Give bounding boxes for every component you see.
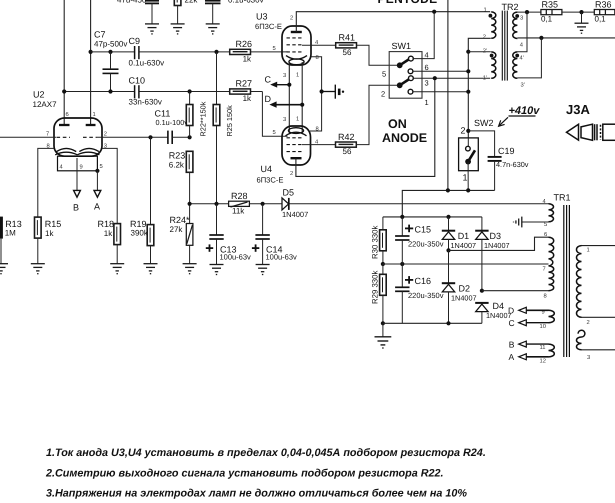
ground R18: [110, 264, 124, 274]
svg-text:9: 9: [80, 164, 83, 171]
resistor R25 (vertical): [216, 52, 218, 105]
svg-text:B: B: [73, 202, 79, 212]
svg-text:U2: U2: [33, 90, 45, 100]
wire U4 screen to R42: [302, 144, 336, 146]
svg-text:J3A: J3A: [566, 102, 590, 117]
svg-text:220u-350v: 220u-350v: [408, 240, 444, 249]
node D: [300, 103, 304, 107]
tube U2 12AX7: [54, 118, 102, 156]
node D1 top: [446, 215, 450, 219]
svg-text:1: 1: [463, 173, 468, 183]
svg-text:1N4007: 1N4007: [451, 241, 477, 250]
resistor R24* (adjustable): [189, 204, 191, 224]
U4 anode bar: [291, 157, 302, 159]
svg-text:TR1: TR1: [554, 193, 571, 203]
capacitor C7: [103, 69, 119, 73]
capacitor C10: [135, 85, 139, 98]
svg-text:27k: 27k: [170, 225, 184, 234]
svg-text:1N4007: 1N4007: [451, 293, 477, 302]
wire throw6 to TR2: [413, 70, 468, 72]
capacitor C14: [262, 204, 264, 235]
svg-text:2: 2: [290, 15, 293, 22]
svg-text:2.Симетрию выходного сигнала у: 2.Симетрию выходного сигнала установить …: [45, 467, 444, 479]
svg-text:R15: R15: [45, 219, 62, 229]
node C7 top: [108, 50, 112, 54]
ground R24: [183, 264, 197, 274]
wire CT rail (y=264): [383, 263, 549, 265]
wire AC2 to TR1 pin8: [482, 290, 549, 292]
svg-text:5: 5: [544, 222, 547, 228]
svg-text:1: 1: [93, 112, 96, 118]
svg-text:ON: ON: [388, 117, 407, 131]
ground main: [382, 323, 384, 337]
svg-text:B: B: [509, 339, 515, 349]
svg-text:10: 10: [540, 323, 546, 330]
svg-text:R27: R27: [236, 79, 253, 89]
node R19 tap: [148, 135, 152, 139]
node SW1-1: [466, 90, 470, 94]
node C11/R22/R23: [188, 135, 192, 139]
svg-text:D4: D4: [493, 301, 505, 311]
node heater A: [95, 169, 99, 173]
resistor R42: [336, 142, 357, 147]
svg-text:1N4007: 1N4007: [484, 241, 510, 250]
TR2 winding 2'-1' (left lower): [491, 52, 496, 78]
svg-text:3': 3': [521, 82, 525, 89]
wire throw1 to SW2 column: [413, 91, 468, 93]
diode D1: [448, 217, 450, 231]
svg-text:4.7n-630v: 4.7n-630v: [496, 160, 529, 169]
svg-text:0,1: 0,1: [595, 15, 607, 24]
svg-text:4: 4: [425, 51, 429, 60]
svg-text:C9: C9: [129, 36, 141, 46]
wire B: [526, 343, 549, 345]
svg-text:R24*: R24*: [170, 215, 191, 225]
svg-text:6П3С-Е: 6П3С-Е: [257, 176, 284, 185]
wire pin3 to R18: [102, 148, 117, 223]
svg-text:56: 56: [343, 48, 352, 57]
U4 cathode arc: [286, 132, 307, 136]
node C7 bottom: [108, 89, 112, 93]
svg-text:D2: D2: [459, 284, 471, 294]
resistor R41: [336, 43, 357, 48]
svg-text:390k: 390k: [131, 228, 149, 237]
node R24 top: [188, 202, 192, 206]
J3A connector: [567, 124, 615, 140]
SW2 contact: [467, 138, 469, 146]
svg-text:U4: U4: [261, 164, 273, 174]
wire grid pin7: [0, 136, 56, 138]
svg-text:7: 7: [543, 267, 546, 273]
svg-text:5: 5: [273, 130, 276, 136]
node R29 bottom: [381, 321, 385, 325]
anode plate b: [86, 124, 96, 126]
svg-text:SW2: SW2: [474, 118, 494, 128]
resistor R27: [230, 89, 251, 94]
svg-text:R42: R42: [338, 132, 355, 142]
svg-text:D5: D5: [283, 187, 295, 197]
wire pin8 to R15: [38, 148, 54, 217]
wire B+ driver line (y=203.8): [190, 203, 229, 205]
node R30 bottom: [381, 262, 385, 266]
grid dashes: [57, 136, 97, 138]
svg-text:8: 8: [544, 293, 547, 300]
svg-text:2: 2: [104, 131, 107, 138]
wire sec pin3: [582, 349, 615, 351]
svg-text:D1: D1: [458, 231, 470, 241]
+410v arrow: [499, 117, 508, 126]
diode D3: [481, 217, 483, 231]
wire: [177, 6, 179, 24]
svg-text:1: 1: [425, 98, 429, 107]
SW1 throw 4: [409, 56, 414, 61]
wire U3 cathode-right down through D node to U4: [301, 62, 303, 133]
node R25 top: [214, 50, 218, 54]
resistor R28 (with slash): [229, 201, 250, 207]
svg-text:0.1u-630v: 0.1u-630v: [129, 59, 165, 68]
wire R27 to U4 grid: [262, 92, 287, 137]
svg-text:1N4007: 1N4007: [282, 210, 308, 219]
node B+ tap: [432, 10, 436, 14]
resistor R15: [35, 217, 42, 238]
svg-text:A: A: [509, 352, 515, 362]
svg-text:C10: C10: [129, 76, 146, 86]
wire A: [526, 356, 549, 358]
svg-text:56: 56: [343, 147, 352, 156]
wire anode U2a (vertical from top): [63, 0, 65, 125]
node SW2 bottom: [466, 188, 470, 192]
ground R19: [144, 264, 158, 274]
rotated ground: [514, 217, 522, 228]
TR1 winding 6-7-8: [549, 237, 554, 291]
svg-text:C15: C15: [415, 225, 432, 235]
svg-text:R26: R26: [236, 39, 253, 49]
node U4 anode tap: [433, 76, 437, 80]
svg-text:6.2k: 6.2k: [169, 160, 185, 169]
node C13 top: [214, 202, 218, 206]
svg-text:R30 330k: R30 330k: [371, 226, 380, 259]
svg-text:SW1: SW1: [392, 41, 412, 51]
wire throw3 to TR2 1': [413, 77, 490, 79]
svg-text:1M: 1M: [5, 228, 16, 237]
svg-text:1': 1': [483, 76, 487, 82]
wire pin3' to pin4 node: [517, 38, 541, 78]
wire grid line upper (y=51.9): [91, 51, 135, 53]
svg-text:PENTODE: PENTODE: [378, 0, 438, 6]
svg-text:1: 1: [484, 8, 487, 14]
resistor R30: [382, 217, 384, 230]
svg-text:D3: D3: [490, 231, 502, 241]
TR2 winding 3-4 (right upper): [513, 12, 518, 38]
svg-text:R36: R36: [595, 0, 612, 10]
resistor R19: [147, 225, 154, 246]
resistor R23: [186, 151, 193, 172]
svg-text:R25 150k: R25 150k: [225, 105, 234, 137]
wire R19: [150, 137, 152, 224]
U3 bottom ellipse: [289, 59, 304, 65]
svg-text:D: D: [508, 306, 514, 316]
wire U3 anode to B+ rail: [296, 12, 490, 32]
node anode-b / C9 line: [89, 50, 93, 54]
svg-text:R18: R18: [98, 219, 115, 229]
TR1 winding 9-10: [549, 310, 555, 322]
cathode arcs: [57, 148, 77, 151]
svg-text:R35: R35: [542, 0, 559, 10]
node C: [287, 83, 291, 87]
ground: [171, 24, 185, 34]
svg-text:1.Ток анода U3,U4 установить в: 1.Ток анода U3,U4 установить в пределах …: [46, 447, 486, 459]
wire TR2 pin2': [468, 51, 491, 53]
node SW2 top: [466, 129, 470, 133]
wire pin5 to ground: [522, 221, 549, 223]
wire minus rail (y=323.3): [383, 322, 482, 324]
svg-text:2: 2: [381, 89, 385, 98]
svg-text:R29 330k: R29 330k: [371, 271, 380, 304]
svg-text:11k: 11k: [232, 206, 245, 215]
svg-text:C7: C7: [94, 30, 106, 40]
wire: [212, 3, 214, 24]
wire R42 to SW1: [356, 85, 397, 144]
TR2 core: [502, 11, 507, 81]
wire R35 to R36: [562, 11, 594, 13]
arrow B: [74, 190, 81, 197]
svg-text:6: 6: [425, 63, 429, 72]
node C15 top: [400, 215, 404, 219]
svg-text:+410v: +410v: [509, 105, 541, 117]
svg-text:2: 2: [587, 319, 590, 326]
SW1 throw 3: [409, 76, 414, 81]
U3 grids (dashed): [287, 38, 302, 52]
node C14 top: [261, 202, 265, 206]
tube U4 envelope: [282, 126, 311, 165]
wire HV rail (y=216.9): [383, 216, 482, 218]
TR1 secondary 1-2: [576, 246, 581, 318]
svg-text:5: 5: [100, 164, 103, 170]
capacitor (cut off at top edge): [205, 1, 221, 4]
svg-text:47u-450: 47u-450: [117, 0, 147, 5]
diode D5: [282, 198, 289, 210]
svg-text:0,1: 0,1: [541, 15, 553, 24]
svg-text:1k: 1k: [243, 94, 252, 103]
resistor R36: [594, 10, 615, 15]
ground R13: [0, 264, 8, 274]
resistor R22 (vertical): [189, 92, 191, 105]
wire pin3 to R35: [517, 11, 541, 13]
resistor R18: [114, 224, 121, 245]
node heater tap: [320, 89, 324, 93]
svg-text:11: 11: [540, 345, 546, 351]
arrow A: [94, 190, 101, 197]
svg-text:5: 5: [273, 46, 276, 52]
wire long B+ feed from top: [447, 0, 449, 190]
svg-text:C: C: [265, 75, 272, 85]
wire D: [526, 309, 549, 311]
svg-text:1: 1: [296, 117, 299, 123]
svg-text:8: 8: [316, 54, 319, 61]
SW1 throw 1: [408, 89, 413, 94]
svg-text:1: 1: [296, 73, 299, 79]
resistor R35: [541, 10, 562, 15]
wire throw4 to B+: [413, 12, 434, 59]
ground C14: [256, 265, 270, 275]
node D1 bottom: [446, 248, 450, 252]
svg-text:3: 3: [587, 354, 590, 361]
svg-text:100u-63v: 100u-63v: [220, 252, 252, 261]
svg-text:22k: 22k: [185, 0, 199, 5]
SW2 box: [459, 138, 479, 171]
wire heater A: [96, 171, 98, 191]
resistor (cut off at top edge): [174, 0, 181, 6]
resistor R29: [380, 274, 387, 295]
svg-text:C19: C19: [498, 146, 515, 156]
svg-text:3: 3: [283, 116, 286, 123]
wire U4 anode down and right: [296, 78, 435, 176]
svg-text:U3: U3: [256, 11, 268, 21]
svg-text:2: 2: [290, 170, 293, 177]
svg-text:D: D: [265, 94, 272, 104]
TR1 core: [564, 205, 570, 357]
diode D4: [475, 303, 488, 312]
node anode-a: [62, 89, 66, 93]
wire C: [526, 322, 549, 324]
TR2 winding 4'-3' (right lower): [513, 52, 518, 78]
node C16 top: [400, 262, 404, 266]
svg-text:100u-63v: 100u-63v: [266, 252, 298, 261]
svg-text:R41: R41: [339, 33, 356, 43]
diode D2: [448, 250, 450, 283]
node R22 top: [188, 89, 192, 93]
TR2 winding 1-2 (left upper): [491, 12, 496, 38]
U3 cathode arc: [286, 56, 307, 60]
svg-text:A: A: [94, 201, 100, 211]
capacitor C19: [468, 131, 494, 157]
svg-text:12AX7: 12AX7: [33, 100, 58, 109]
svg-text:6: 6: [544, 231, 547, 238]
svg-text:2': 2': [483, 48, 487, 55]
node pin3/4': [525, 10, 529, 14]
svg-text:TR2: TR2: [502, 2, 519, 12]
svg-text:3: 3: [283, 72, 286, 79]
SW1 throw 6: [408, 69, 413, 74]
svg-text:2: 2: [461, 126, 466, 136]
resistor R26: [230, 49, 251, 54]
wire R41 to SW1: [357, 45, 398, 65]
ground R15: [31, 264, 45, 274]
wire U3 cathode-left down through C node to U4: [288, 62, 290, 133]
wire to ground: [581, 12, 583, 23]
svg-text:C: C: [509, 318, 515, 328]
svg-text:47p-500v: 47p-500v: [94, 40, 127, 49]
node D2 bottom: [446, 321, 450, 325]
ground C13: [210, 265, 224, 275]
node pin4: [539, 36, 543, 40]
node ground tap: [579, 10, 583, 14]
wire U3 pin8 / U4 pin8 cathode column: [310, 57, 322, 131]
wire AC1 to TR1 pin6: [449, 237, 549, 250]
svg-text:R28: R28: [231, 191, 248, 201]
wire pin3 to pin4': [517, 12, 527, 52]
svg-text:12: 12: [540, 357, 546, 364]
svg-text:3: 3: [425, 79, 429, 88]
svg-text:1k: 1k: [104, 229, 113, 238]
svg-text:ANODE: ANODE: [382, 131, 427, 145]
resistor R13 (cut at left edge): [0, 217, 3, 239]
svg-text:C16: C16: [415, 276, 432, 286]
ground: [575, 23, 589, 33]
capacitor C16: [401, 264, 403, 287]
wire: [151, 3, 153, 24]
node D3 bottom: [480, 289, 484, 293]
TR1 secondary 3: [578, 330, 585, 337]
wire TR2 pin2: [468, 38, 491, 138]
svg-text:1: 1: [587, 248, 590, 254]
svg-text:6П3С-Е: 6П3С-Е: [255, 22, 282, 31]
wire grid line lower (y=91.5): [64, 91, 134, 93]
capacitor C15: [401, 217, 403, 236]
svg-text:2: 2: [483, 34, 486, 41]
wire heater B: [76, 158, 78, 191]
tube U3 envelope: [282, 26, 311, 65]
svg-text:1k: 1k: [243, 54, 252, 63]
heater base box of U2: [58, 156, 98, 171]
SW1 pole upper: [397, 62, 403, 68]
node SW1-6: [466, 69, 470, 73]
svg-text:0.1u-100v: 0.1u-100v: [156, 118, 189, 127]
wire HV rail upper (y=190.4): [402, 190, 494, 217]
wire sec pin2: [582, 316, 615, 318]
svg-text:33n-630v: 33n-630v: [129, 98, 162, 107]
node long feed: [446, 188, 450, 192]
wire grid pin2 to C11: [97, 136, 168, 138]
U4 top ellipse: [288, 128, 303, 134]
anode plate a: [59, 124, 70, 126]
node TR2 2': [466, 50, 470, 54]
svg-text:7: 7: [46, 132, 49, 138]
svg-text:5: 5: [382, 70, 386, 79]
svg-text:8: 8: [316, 125, 319, 132]
svg-text:R23: R23: [169, 151, 186, 161]
svg-text:1k: 1k: [45, 229, 54, 238]
svg-text:4': 4': [520, 56, 524, 62]
SW1 pole lower: [397, 82, 403, 88]
TR1 winding 11-12: [549, 344, 555, 357]
svg-text:3: 3: [520, 15, 523, 22]
wire U3 screen to R41: [302, 44, 336, 46]
svg-text:0.1u-630v: 0.1u-630v: [228, 0, 264, 5]
heater bypass symbol: [322, 91, 336, 93]
svg-text:R22**150k: R22**150k: [199, 101, 208, 136]
capacitor C13: [216, 204, 218, 235]
capacitor C9: [135, 46, 139, 59]
TR1 winding 4-5: [549, 204, 554, 222]
capacitor (cut off at top edge): [145, 1, 159, 4]
U4 grids (dashed): [287, 138, 302, 152]
ground: [206, 24, 220, 34]
wire anode U2b (vertical from top): [90, 0, 92, 125]
svg-text:6: 6: [66, 111, 69, 118]
ground: [145, 24, 159, 34]
wire pin4 out: [517, 37, 615, 39]
U3 anode bar: [291, 31, 302, 33]
D arrow: [276, 104, 302, 106]
capacitor C11: [168, 131, 172, 144]
wire sec pin1: [582, 245, 615, 247]
svg-text:3.Напряжения на электродах лам: 3.Напряжения на электродах ламп не должн…: [46, 487, 467, 499]
svg-text:220u-350v: 220u-350v: [408, 291, 444, 300]
C arrow: [277, 84, 289, 86]
SW1 box: [389, 52, 422, 99]
